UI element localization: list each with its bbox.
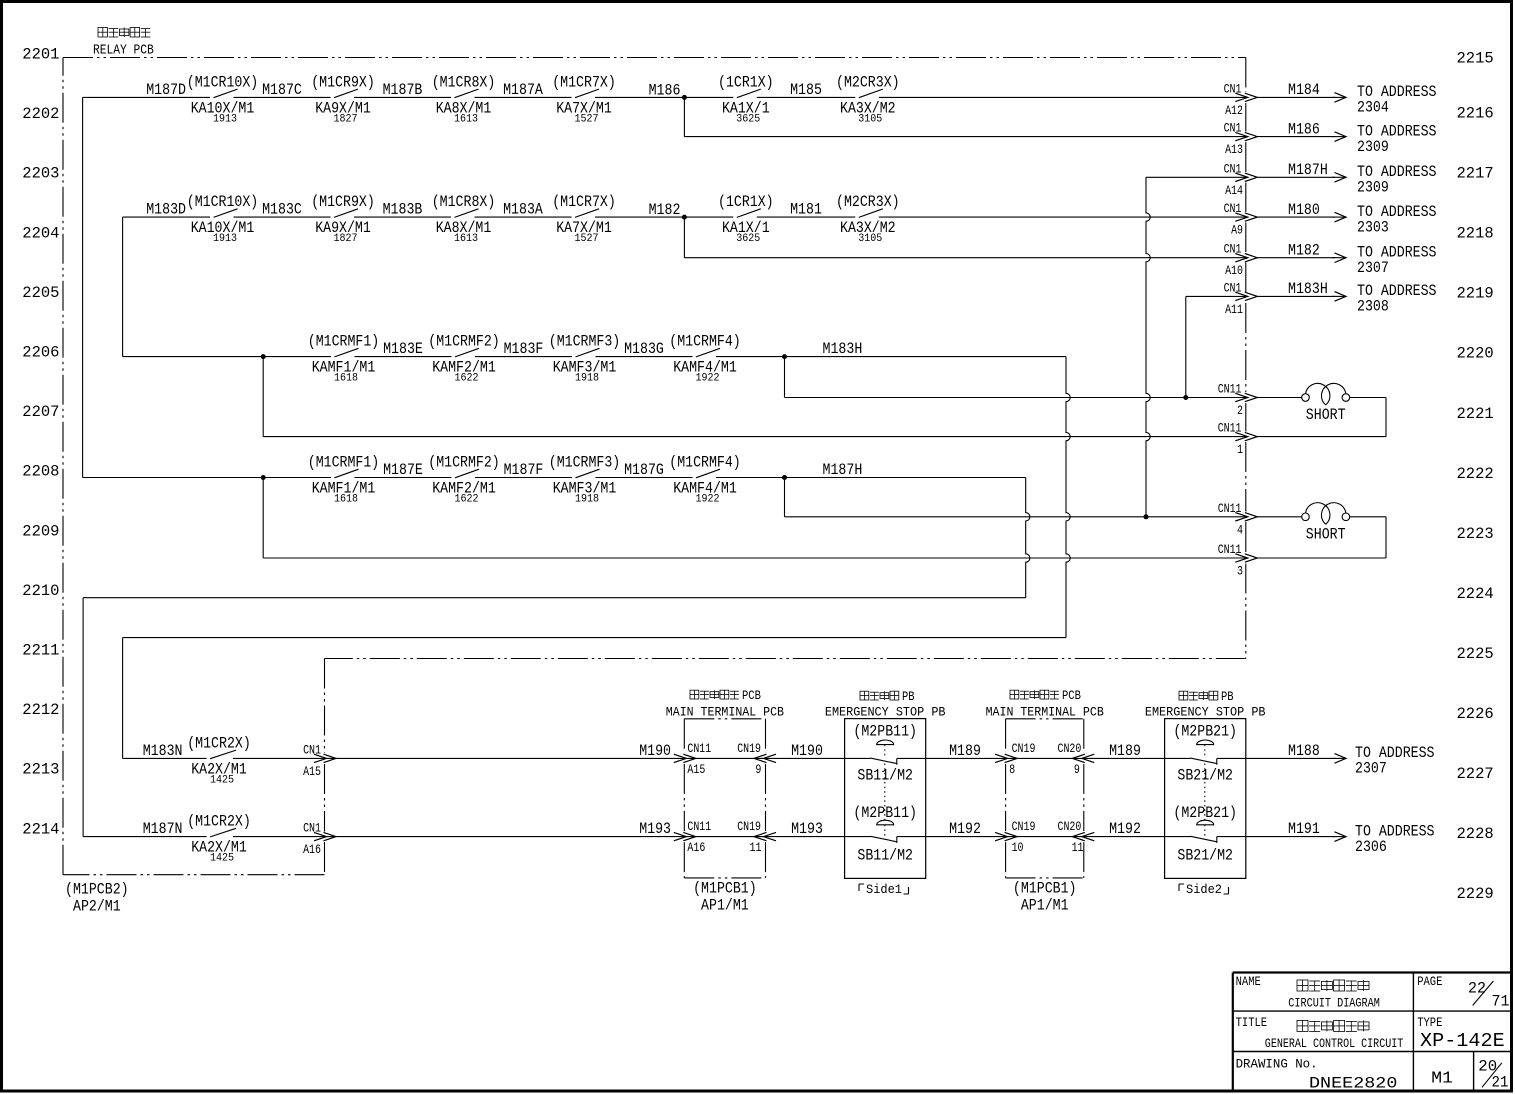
svg-text:(M2PB11): (M2PB11) (853, 723, 917, 741)
svg-text:(M1CR8X): (M1CR8X) (432, 73, 496, 91)
wire row 2206 KAMF M183 chain (123, 356, 1066, 358)
wire M187H drop to CN11-4 row (784, 478, 786, 517)
wire M184 to address arrow (1257, 93, 1346, 103)
svg-text:M183H: M183H (823, 340, 863, 358)
svg-text:TYPE: TYPE (1417, 1016, 1442, 1030)
svg-text:M186: M186 (649, 81, 681, 99)
svg-text:SB11/M2: SB11/M2 (857, 847, 913, 865)
pushbutton SB21/M2 contact 1 (M2PB21) (1173, 723, 1237, 785)
relay contact KA3X/M2 (M2CR3X) (836, 73, 900, 125)
svg-text:(M1CR9X): (M1CR9X) (311, 73, 375, 91)
svg-text:(M2PB11): (M2PB11) (853, 804, 917, 822)
right line numbers 2215-2229 (1457, 50, 1494, 904)
relay contact KA10X/M1 (M1CR10X) (187, 73, 259, 125)
svg-text:M183N: M183N (143, 742, 183, 760)
svg-text:M185: M185 (790, 81, 822, 99)
svg-text:2217: 2217 (1457, 165, 1494, 183)
title block sheet 20/21 cell (1478, 1057, 1508, 1091)
label MAIN TERMINAL PCB 2 (986, 689, 1104, 720)
junction row2206 left (261, 354, 266, 359)
svg-text:M191: M191 (1288, 820, 1320, 838)
svg-text:2209: 2209 (22, 522, 59, 540)
junction CN11-4 / A14 (1144, 514, 1149, 519)
svg-text:2218: 2218 (1457, 225, 1494, 243)
svg-text:DRAWING No.: DRAWING No. (1236, 1057, 1318, 1072)
relay contact KAMF4/M1 (M1CRMF4) (669, 454, 741, 506)
svg-text:(M1CRMF2): (M1CRMF2) (428, 333, 500, 351)
junction row2208 right (782, 475, 787, 480)
svg-text:M193: M193 (791, 820, 823, 838)
svg-text:M188: M188 (1288, 742, 1320, 760)
title block TITLE cell (1236, 1016, 1404, 1051)
svg-text:2309: 2309 (1357, 138, 1389, 156)
svg-text:3625: 3625 (736, 113, 760, 125)
MAIN TERMINAL PCB box 1 (M1PCB1) (684, 719, 765, 878)
svg-text:2211: 2211 (22, 642, 59, 660)
relay contact KAMF1/M1 (M1CRMF1) (308, 454, 380, 506)
svg-text:1913: 1913 (213, 113, 237, 125)
relay contact KAMF3/M1 (M1CRMF3) (549, 454, 621, 506)
svg-text:(M2PB21): (M2PB21) (1173, 804, 1237, 822)
svg-text:(M2CR3X): (M2CR3X) (836, 193, 900, 211)
relay contact KA3X/M2 (M2CR3X) (836, 193, 900, 245)
connector CN11 pin A15 box1 (674, 741, 711, 777)
wire M183H return left vertical to M183N row (122, 638, 124, 759)
relay contact KA9X/M1 (M1CR9X) (311, 193, 375, 245)
svg-text:1918: 1918 (575, 494, 599, 506)
wire left vertical row2204 to row2206 (122, 217, 124, 357)
svg-text:A15: A15 (687, 762, 705, 777)
RELAY PCB label (93, 28, 154, 59)
svg-text:2309: 2309 (1357, 179, 1389, 197)
relay contact KA9X/M1 (M1CR9X) (311, 73, 375, 125)
svg-text:Side2: Side2 (1186, 882, 1222, 897)
connector CN1 pin A11 (1224, 280, 1258, 317)
wire row2206 left drop to CN11-1 row (262, 357, 264, 437)
svg-text:SHORT: SHORT (1306, 525, 1346, 543)
svg-text:1827: 1827 (334, 113, 358, 125)
svg-text:(M2CR3X): (M2CR3X) (836, 73, 900, 91)
svg-text:M186: M186 (1288, 120, 1320, 138)
svg-text:(M1CR2X): (M1CR2X) (187, 734, 251, 752)
svg-text:M183G: M183G (624, 340, 664, 358)
svg-text:CIRCUIT DIAGRAM: CIRCUIT DIAGRAM (1288, 995, 1380, 1010)
svg-text:M187C: M187C (262, 81, 302, 99)
svg-text:1913: 1913 (213, 233, 237, 245)
svg-text:PCB: PCB (1062, 689, 1081, 703)
svg-text:(M1CRMF1): (M1CRMF1) (308, 333, 380, 351)
svg-text:(M1CR7X): (M1CR7X) (552, 193, 616, 211)
relay contact KA2X/M1 (M1CR2X) row 2213 (187, 734, 251, 786)
svg-text:1622: 1622 (455, 373, 479, 385)
svg-text:M187H: M187H (823, 461, 863, 479)
relay contact KAMF2/M1 (M1CRMF2) (428, 454, 500, 506)
wire row 2214 M187N chain (83, 836, 1335, 838)
relay contact KA7X/M1 (M1CR7X) (552, 193, 616, 245)
connector CN20 pin 9 box2 (1058, 741, 1095, 777)
title block NAME cell (1236, 975, 1380, 1010)
title block frame (1233, 973, 1512, 1092)
svg-text:MAIN TERMINAL PCB: MAIN TERMINAL PCB (666, 705, 784, 720)
label TO ADDRESS 2309 (1357, 122, 1437, 156)
svg-text:2202: 2202 (22, 105, 59, 123)
svg-text:1613: 1613 (454, 113, 478, 125)
pushbutton SB11/M2 contact 2 (M2PB11) (853, 764, 917, 865)
svg-text:AP1/M1: AP1/M1 (1021, 897, 1069, 915)
wire row 2204 M183 chain (123, 216, 1246, 218)
wire A14 row M187H (1146, 176, 1246, 178)
RELAY PCB (M1PCB2) dash-dot boundary (63, 58, 1246, 875)
wire left vertical row2202 to row2208 (82, 97, 84, 477)
svg-text:(M1CRMF3): (M1CRMF3) (549, 333, 621, 351)
label TO ADDRESS 2303 (1357, 203, 1437, 237)
connector CN19 pin 8 box2 (995, 741, 1035, 777)
title block PAGE cell (1417, 975, 1509, 1010)
junction row2208 left (261, 475, 266, 480)
svg-text:A16: A16 (303, 842, 321, 857)
svg-text:CN19: CN19 (1012, 819, 1036, 834)
svg-text:M192: M192 (1109, 820, 1141, 838)
connector CN11 pin 1 (1218, 421, 1258, 458)
svg-text:2216: 2216 (1457, 105, 1494, 123)
label TO ADDRESS 2307 (1355, 744, 1435, 778)
title block DRAWING No cell (1236, 1057, 1398, 1093)
svg-text:(M1CR2X): (M1CR2X) (187, 813, 251, 831)
svg-text:CN20: CN20 (1058, 819, 1082, 834)
pushbutton SB21/M2 contact 2 (M2PB21) (1173, 764, 1237, 865)
svg-text:(M1PCB1): (M1PCB1) (693, 880, 757, 898)
connector CN11 pin 3 (1218, 542, 1258, 579)
svg-text:(M1CR8X): (M1CR8X) (432, 193, 496, 211)
svg-text:M183H: M183H (1288, 280, 1328, 298)
wire row 2202 M187 chain (83, 96, 1246, 98)
wire M180 to address arrow (1257, 212, 1346, 222)
wire M187H to address arrow (1257, 173, 1346, 183)
svg-text:2307: 2307 (1355, 760, 1387, 778)
svg-text:PB: PB (1221, 690, 1234, 704)
label EMERGENCY STOP PB 1 (825, 690, 946, 720)
svg-text:2: 2 (1237, 403, 1243, 418)
svg-text:(M1CR9X): (M1CR9X) (311, 193, 375, 211)
svg-text:1425: 1425 (210, 774, 234, 786)
wire M187H return horizontal row 2224 (83, 597, 1026, 599)
svg-text:A11: A11 (1225, 302, 1243, 317)
label TO ADDRESS 2304 (1357, 83, 1437, 117)
svg-text:2224: 2224 (1457, 585, 1494, 603)
svg-text:2220: 2220 (1457, 345, 1494, 363)
relay contact KA8X/M1 (M1CR8X) (432, 193, 496, 245)
svg-text:SB21/M2: SB21/M2 (1177, 847, 1233, 865)
connector CN20 pin 11 box2 (1058, 819, 1095, 855)
connector CN1 pin A10 (1224, 242, 1258, 279)
junction CN11-2 / A11 (1183, 395, 1188, 400)
wire M182 drop to A10 row (683, 217, 685, 258)
svg-text:M183A: M183A (503, 201, 543, 219)
svg-text:2308: 2308 (1357, 298, 1389, 316)
svg-text:3: 3 (1237, 564, 1243, 579)
svg-text:CN19: CN19 (1012, 741, 1036, 756)
svg-text:M187G: M187G (624, 461, 664, 479)
svg-text:1527: 1527 (575, 113, 599, 125)
wire row2208 left drop to CN11-3 row (262, 478, 264, 559)
svg-text:M184: M184 (1288, 81, 1320, 99)
connector CN19 pin 11 box1 (737, 819, 776, 855)
svg-text:M189: M189 (949, 742, 981, 760)
svg-text:1527: 1527 (575, 233, 599, 245)
svg-text:2307: 2307 (1357, 259, 1389, 277)
svg-text:22: 22 (1468, 979, 1486, 997)
svg-text:M180: M180 (1288, 201, 1320, 219)
svg-text:2306: 2306 (1355, 838, 1387, 856)
svg-text:M190: M190 (639, 742, 671, 760)
wire vertical A14 to CN11-4 junction with hops (1146, 177, 1150, 517)
svg-text:M187E: M187E (383, 461, 423, 479)
connector CN1 pin A12 (1224, 81, 1258, 118)
svg-text:2219: 2219 (1457, 285, 1494, 303)
connector CN19 pin 10 box2 (995, 819, 1035, 855)
connector CN1 pin A13 (1224, 121, 1258, 158)
M1PCB1 designator box1 (693, 880, 757, 915)
svg-text:CN20: CN20 (1058, 741, 1082, 756)
svg-text:M187D: M187D (146, 81, 186, 99)
svg-text:2205: 2205 (22, 284, 59, 302)
svg-text:2213: 2213 (22, 761, 59, 779)
svg-text:1827: 1827 (334, 233, 358, 245)
svg-text:1618: 1618 (334, 373, 358, 385)
wire M186 to address arrow (1257, 132, 1346, 142)
SHORT jumper 2 loop (1257, 517, 1386, 558)
svg-text:(M1CR10X): (M1CR10X) (187, 193, 259, 211)
svg-text:1613: 1613 (454, 233, 478, 245)
wire vertical A11 to CN11-2 junction (1185, 296, 1187, 397)
wire M187H return loop right vertical with hops (1026, 478, 1030, 598)
svg-text:2215: 2215 (1457, 50, 1494, 68)
svg-text:(M1CRMF4): (M1CRMF4) (669, 454, 741, 472)
svg-text:2201: 2201 (22, 46, 59, 64)
svg-text:A15: A15 (303, 764, 321, 779)
title block TYPE cell (1417, 1016, 1505, 1052)
M1PCB2 designator (65, 881, 129, 916)
svg-text:2227: 2227 (1457, 765, 1494, 783)
wire M183H to address arrow (1257, 292, 1346, 302)
svg-text:1: 1 (1237, 442, 1243, 457)
svg-text:A16: A16 (687, 840, 705, 855)
svg-text:PCB: PCB (742, 689, 761, 703)
svg-text:(M1CR10X): (M1CR10X) (187, 73, 259, 91)
svg-text:1425: 1425 (210, 853, 234, 865)
svg-text:(1CR1X): (1CR1X) (718, 193, 774, 211)
label EMERGENCY STOP PB 2 (1145, 690, 1266, 720)
wire row 2208 KAMF M187 chain (83, 477, 1026, 479)
svg-text:A14: A14 (1225, 183, 1243, 198)
pushbutton SB11/M2 contact 1 (M2PB11) (853, 723, 917, 785)
junction M182 (682, 215, 687, 220)
svg-text:2207: 2207 (22, 403, 59, 421)
svg-text:2206: 2206 (22, 344, 59, 362)
svg-text:GENERAL CONTROL CIRCUIT: GENERAL CONTROL CIRCUIT (1265, 1036, 1404, 1051)
connector CN11 pin 4 (1218, 501, 1258, 538)
M1PCB1 designator box2 (1013, 880, 1077, 915)
svg-text:3625: 3625 (736, 233, 760, 245)
svg-text:2223: 2223 (1457, 525, 1494, 543)
svg-text:10: 10 (1012, 840, 1024, 855)
relay contact KA1X/1 (1CR1X) (718, 193, 774, 245)
svg-text:2228: 2228 (1457, 825, 1494, 843)
relay contact KA10X/M1 (M1CR10X) (187, 193, 259, 245)
svg-text:M187A: M187A (503, 81, 543, 99)
svg-text:71: 71 (1492, 992, 1510, 1010)
svg-text:(M1CRMF1): (M1CRMF1) (308, 454, 380, 472)
svg-text:M187H: M187H (1288, 161, 1328, 179)
svg-text:XP-142E: XP-142E (1420, 1030, 1505, 1052)
junction row2206 right (782, 354, 787, 359)
svg-text:M183C: M183C (262, 201, 302, 219)
arrow to address 2306 (1332, 836, 1346, 838)
svg-text:2204: 2204 (22, 224, 59, 242)
svg-text:CN11: CN11 (687, 819, 711, 834)
svg-text:RELAY PCB: RELAY PCB (93, 44, 154, 59)
left line numbers 2201-2214 (22, 46, 59, 839)
svg-text:M183E: M183E (383, 340, 423, 358)
svg-text:2208: 2208 (22, 463, 59, 481)
relay contact KA7X/M1 (M1CR7X) (552, 73, 616, 125)
svg-text:EMERGENCY STOP PB: EMERGENCY STOP PB (1145, 705, 1266, 720)
relay contact KAMF2/M1 (M1CRMF2) (428, 333, 500, 385)
svg-text:(M1CR7X): (M1CR7X) (552, 73, 616, 91)
svg-text:11: 11 (1072, 840, 1084, 855)
svg-text:2221: 2221 (1457, 405, 1494, 423)
svg-text:AP1/M1: AP1/M1 (701, 897, 749, 915)
svg-text:EMERGENCY STOP PB: EMERGENCY STOP PB (825, 705, 946, 720)
svg-text:NAME: NAME (1236, 975, 1261, 989)
wire M182 to address arrow (1257, 253, 1346, 263)
svg-text:(M1PCB1): (M1PCB1) (1013, 880, 1077, 898)
svg-text:M182: M182 (649, 201, 681, 219)
svg-text:M181: M181 (790, 201, 822, 219)
svg-text:M189: M189 (1109, 742, 1141, 760)
svg-text:M187F: M187F (504, 461, 544, 479)
svg-text:A10: A10 (1225, 263, 1243, 278)
svg-text:2225: 2225 (1457, 645, 1494, 663)
wire M187H return left vertical to M187N row (82, 598, 84, 837)
connector CN11 pin A16 box1 (674, 819, 711, 855)
svg-text:M1: M1 (1431, 1070, 1453, 1089)
relay contact KAMF1/M1 (M1CRMF1) (308, 333, 380, 385)
svg-text:2203: 2203 (22, 165, 59, 183)
svg-text:2226: 2226 (1457, 705, 1494, 723)
svg-text:1922: 1922 (696, 494, 720, 506)
svg-text:4: 4 (1237, 522, 1243, 537)
arrow to address 2307 (1332, 757, 1346, 759)
svg-text:CN19: CN19 (737, 741, 761, 756)
svg-text:1618: 1618 (334, 494, 358, 506)
svg-text:Side1: Side1 (866, 882, 902, 897)
svg-text:CN19: CN19 (737, 819, 761, 834)
relay contact KA1X/1 (1CR1X) (718, 73, 774, 125)
svg-text:2303: 2303 (1357, 218, 1389, 236)
label TO ADDRESS 2306 (1355, 822, 1435, 856)
SHORT jumper symbol 2 (1302, 503, 1350, 544)
wire A11 row M183H (1186, 295, 1246, 297)
svg-text:MAIN TERMINAL PCB: MAIN TERMINAL PCB (986, 705, 1104, 720)
relay contact KA2X/M1 (M1CR2X) row 2214 (187, 813, 251, 865)
svg-text:DNEE2820: DNEE2820 (1309, 1074, 1397, 1092)
svg-text:A12: A12 (1225, 103, 1243, 118)
svg-text:TITLE: TITLE (1236, 1016, 1268, 1030)
svg-text:2212: 2212 (22, 701, 59, 719)
svg-text:M193: M193 (639, 820, 671, 838)
MAIN TERMINAL PCB box 2 (M1PCB1) (1006, 719, 1084, 878)
relay contact KA8X/M1 (M1CR8X) (432, 73, 496, 125)
junction M186 (682, 95, 687, 100)
svg-text:PB: PB (902, 690, 915, 704)
svg-text:21: 21 (1492, 1073, 1509, 1091)
svg-text:1622: 1622 (455, 494, 479, 506)
svg-text:AP2/M1: AP2/M1 (73, 898, 121, 916)
connector CN1 pin A15 (303, 742, 336, 779)
svg-text:M187B: M187B (383, 81, 423, 99)
svg-text:CN11: CN11 (687, 741, 711, 756)
svg-text:A9: A9 (1231, 223, 1243, 238)
svg-text:M183F: M183F (504, 340, 544, 358)
svg-text:(M1PCB2): (M1PCB2) (65, 881, 129, 899)
label Side2 (1179, 882, 1229, 897)
connector CN1 pin A16 (303, 821, 336, 858)
svg-text:8: 8 (1009, 762, 1015, 777)
wire M183H return horizontal row 2225 (123, 637, 1066, 639)
svg-text:1922: 1922 (696, 373, 720, 385)
SHORT jumper symbol 1 (1302, 383, 1350, 424)
svg-text:(M1CRMF4): (M1CRMF4) (669, 333, 741, 351)
svg-text:A13: A13 (1225, 142, 1243, 157)
label Side1 (859, 882, 909, 897)
connector CN1 pin A14 (1224, 161, 1258, 198)
relay contact KAMF3/M1 (M1CRMF3) (549, 333, 621, 385)
svg-text:2214: 2214 (22, 820, 59, 838)
svg-text:(M1CRMF3): (M1CRMF3) (549, 454, 621, 472)
label TO ADDRESS 2307 (1357, 243, 1437, 277)
EMERGENCY STOP PB box Side2 (1165, 719, 1246, 879)
svg-text:2222: 2222 (1457, 465, 1494, 483)
connector CN11 pin 2 (1218, 382, 1258, 419)
svg-text:3105: 3105 (858, 113, 882, 125)
svg-text:M183B: M183B (383, 201, 423, 219)
svg-text:SHORT: SHORT (1306, 406, 1346, 424)
connector CN1 pin A9 (1224, 201, 1258, 238)
svg-text:3105: 3105 (858, 233, 882, 245)
label TO ADDRESS 2308 (1357, 282, 1437, 316)
svg-text:(M2PB21): (M2PB21) (1173, 723, 1237, 741)
svg-text:M192: M192 (949, 820, 981, 838)
svg-text:M187N: M187N (143, 820, 183, 838)
svg-text:M182: M182 (1288, 242, 1320, 260)
svg-text:9: 9 (1074, 762, 1080, 777)
connector CN19 pin 9 box1 (737, 741, 776, 777)
svg-text:M183D: M183D (146, 201, 186, 219)
EMERGENCY STOP PB box Side1 (845, 719, 926, 879)
wire row 2213 M183N chain (123, 757, 1335, 759)
SHORT jumper 1 loop (1257, 398, 1386, 437)
svg-text:2210: 2210 (22, 582, 59, 600)
wire M183H return loop right vertical with hops (1066, 357, 1070, 638)
svg-text:M190: M190 (791, 742, 823, 760)
svg-text:(1CR1X): (1CR1X) (718, 73, 774, 91)
svg-text:2229: 2229 (1457, 885, 1494, 903)
wire M183H drop to CN11-2 row (784, 357, 786, 398)
svg-text:(M1CRMF2): (M1CRMF2) (428, 454, 500, 472)
svg-text:2304: 2304 (1357, 99, 1389, 117)
svg-text:11: 11 (750, 840, 762, 855)
